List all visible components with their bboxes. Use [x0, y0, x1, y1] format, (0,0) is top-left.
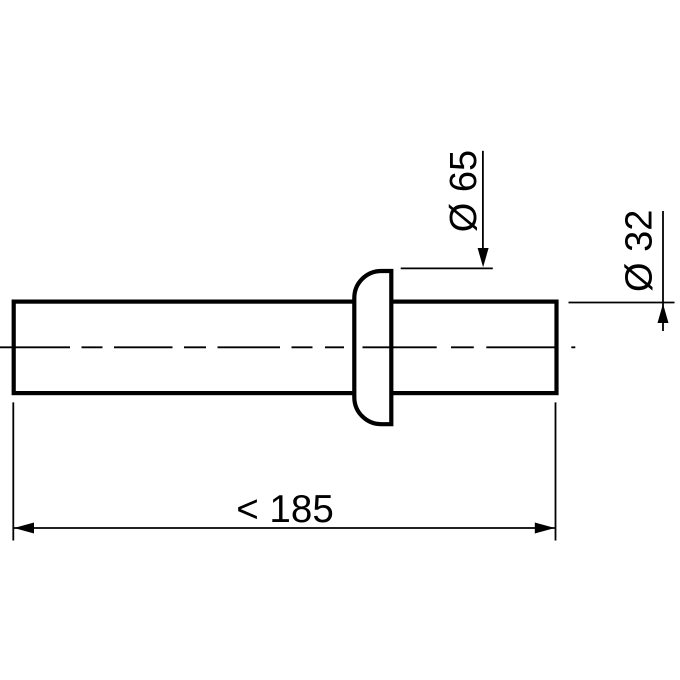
arrowhead length right (points right) — [535, 523, 555, 534]
shoulder line at collar top (O65 reference) — [401, 267, 493, 269]
dimension line length 185 — [13, 527, 555, 529]
dimension line O32 (vertical) — [662, 211, 664, 331]
extension line left (length dim) — [12, 402, 14, 540]
extension line of shaft top edge (O32 reference) — [569, 302, 675, 304]
dimension leader line O65 (vertical) — [482, 151, 484, 252]
extension line right (length dim) — [555, 402, 557, 540]
arrowhead length left (points left) — [14, 523, 34, 534]
collar (dome flange), white-filled to hide shaft lines — [354, 271, 391, 424]
svg-text:Ø 65: Ø 65 — [443, 150, 485, 232]
centerline (dash-dot axis) — [0, 346, 575, 348]
arrowhead O65 (points down) — [478, 248, 489, 267]
rod body (shaft, visible outline) — [14, 302, 557, 394]
svg-text:< 185: < 185 — [236, 488, 334, 531]
svg-text:Ø 32: Ø 32 — [619, 210, 661, 292]
arrowhead O32 (points up) — [658, 304, 669, 323]
